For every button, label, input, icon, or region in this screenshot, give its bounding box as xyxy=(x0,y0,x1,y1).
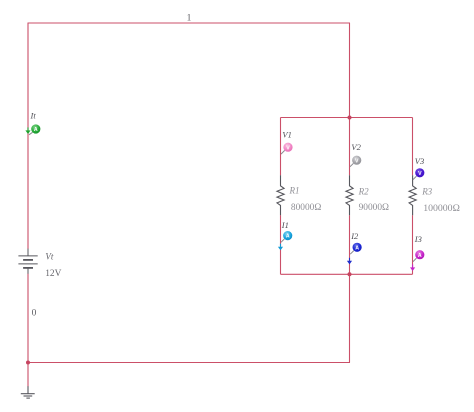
svg-text:V: V xyxy=(355,158,359,164)
svg-text:A: A xyxy=(286,234,290,240)
svg-text:90000Ω: 90000Ω xyxy=(359,203,389,213)
svg-text:V3: V3 xyxy=(415,156,424,166)
svg-text:80000Ω: 80000Ω xyxy=(291,203,321,213)
svg-text:V: V xyxy=(418,171,422,177)
svg-text:R1: R1 xyxy=(289,185,300,195)
svg-text:I1: I1 xyxy=(281,220,289,230)
svg-text:V: V xyxy=(286,145,290,151)
svg-text:1: 1 xyxy=(187,13,192,23)
svg-text:V2: V2 xyxy=(351,142,361,152)
svg-text:R2: R2 xyxy=(358,187,369,197)
svg-text:A: A xyxy=(355,245,359,251)
svg-text:R3: R3 xyxy=(421,187,432,197)
svg-text:100000Ω: 100000Ω xyxy=(423,203,460,214)
svg-text:V1: V1 xyxy=(282,130,291,140)
svg-text:Vt: Vt xyxy=(45,252,53,262)
svg-text:A: A xyxy=(418,253,422,259)
svg-text:A: A xyxy=(34,127,38,133)
svg-text:It: It xyxy=(30,111,37,121)
svg-text:0: 0 xyxy=(32,309,37,319)
svg-text:12V: 12V xyxy=(45,269,61,279)
svg-text:I2: I2 xyxy=(350,231,359,241)
svg-text:I3: I3 xyxy=(414,234,422,244)
